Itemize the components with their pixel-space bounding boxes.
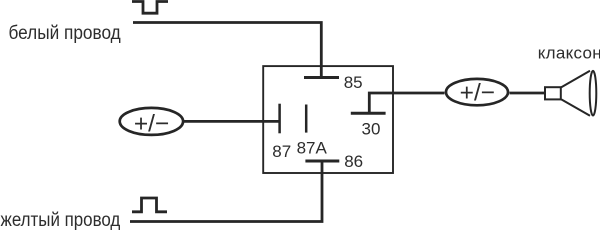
svg-text:87A: 87A <box>297 138 328 157</box>
svg-text:+/−: +/− <box>460 80 495 107</box>
svg-text:30: 30 <box>362 119 381 138</box>
svg-text:клаксон: клаксон <box>538 44 600 63</box>
svg-text:85: 85 <box>344 73 363 92</box>
svg-text:86: 86 <box>344 152 363 171</box>
svg-text:+/−: +/− <box>134 111 169 138</box>
svg-text:87: 87 <box>272 142 291 161</box>
svg-text:белый провод: белый провод <box>9 22 122 44</box>
svg-text:желтый провод: желтый провод <box>1 209 121 230</box>
